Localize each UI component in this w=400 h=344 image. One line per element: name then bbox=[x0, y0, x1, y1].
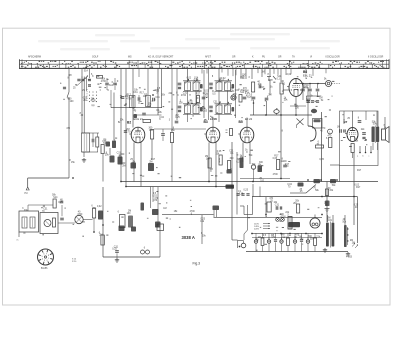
capacitor C14c bbox=[124, 131, 127, 133]
choke L7 bbox=[288, 217, 292, 230]
mains plug bbox=[238, 241, 246, 249]
svg-text:R17: R17 bbox=[357, 170, 362, 172]
capacitor C19 bbox=[252, 97, 256, 104]
wire anode frame bbox=[290, 96, 321, 106]
svg-text:2M: 2M bbox=[293, 203, 296, 205]
wire osc drop bbox=[139, 69, 162, 115]
resistor R7 bbox=[170, 133, 173, 143]
svg-text:KG VL GOLF VERKORT: KG VL GOLF VERKORT bbox=[148, 57, 174, 59]
wire af drops bbox=[253, 184, 260, 197]
capacitor C24 bbox=[316, 84, 320, 98]
svg-text:B2: B2 bbox=[127, 121, 131, 125]
resistor R3 bbox=[113, 78, 117, 90]
capacitor C30 bbox=[340, 129, 346, 133]
ground G1 bbox=[82, 158, 86, 162]
capacitor C5 bbox=[105, 78, 109, 90]
svg-text:C31: C31 bbox=[275, 204, 280, 206]
capacitor C44 psu bbox=[280, 233, 283, 251]
svg-text:R17: R17 bbox=[196, 94, 201, 96]
svg-text:2M: 2M bbox=[83, 100, 86, 102]
capacitor C6 bbox=[121, 97, 125, 99]
svg-text:0,25: 0,25 bbox=[244, 190, 249, 192]
coil L5 bbox=[146, 96, 151, 107]
dial lamp LA2 bbox=[281, 218, 285, 222]
svg-text:EF 22: EF 22 bbox=[245, 117, 253, 121]
label Fig.3 bbox=[193, 262, 201, 266]
capacitor C12 bbox=[153, 98, 155, 102]
terminal PU bbox=[25, 187, 30, 195]
svg-text:c: c bbox=[369, 156, 370, 158]
coil L3 bbox=[148, 163, 154, 171]
svg-text:1M: 1M bbox=[163, 208, 166, 210]
terminal 1 circled bbox=[328, 129, 333, 134]
fuse F1 bbox=[267, 202, 271, 212]
capacitor C13b bbox=[134, 114, 138, 118]
capacitor C21 electrolytic bbox=[274, 110, 279, 115]
label B6 bbox=[344, 120, 348, 124]
capacitor C15 bbox=[202, 97, 206, 99]
wire osc link bbox=[103, 93, 114, 182]
label B4 bbox=[239, 117, 253, 124]
svg-text:S14: S14 bbox=[282, 237, 287, 239]
svg-text:4700: 4700 bbox=[126, 99, 132, 101]
wire B4 leads bbox=[243, 118, 250, 165]
coil L4 bbox=[130, 96, 136, 108]
resistor R8 bbox=[197, 96, 200, 103]
capacitor C8 bbox=[106, 142, 111, 147]
wire mains link bbox=[232, 239, 238, 241]
svg-text:2M: 2M bbox=[99, 235, 102, 237]
ground G2 bbox=[323, 248, 327, 252]
label ra bbox=[305, 77, 308, 80]
svg-text:II OSCILLOGR: II OSCILLOGR bbox=[368, 57, 384, 59]
wire tone bus low bbox=[281, 181, 378, 183]
svg-text:B5: B5 bbox=[239, 120, 243, 124]
tube B5 EBL21 bbox=[287, 79, 303, 97]
coil L1 bbox=[82, 133, 90, 157]
label B5 bbox=[303, 70, 312, 78]
trimmer capacitor C2 bbox=[77, 69, 89, 86]
loudspeaker LS bbox=[382, 127, 390, 143]
wire diag bbox=[290, 185, 316, 194]
svg-text:220V: 220V bbox=[254, 229, 260, 231]
padder capacitor C7 bbox=[118, 157, 123, 165]
svg-text:0,02: 0,02 bbox=[97, 206, 102, 208]
svg-text:GOLF: GOLF bbox=[92, 57, 99, 59]
resistor R1 bbox=[96, 133, 99, 152]
svg-text:0,25: 0,25 bbox=[112, 249, 117, 251]
dial lamp LA1 bbox=[276, 218, 280, 222]
svg-text:C31: C31 bbox=[235, 90, 240, 92]
wire mains lead bbox=[244, 205, 248, 240]
capacitor C28 bbox=[358, 121, 362, 123]
capacitor C S6c bbox=[178, 106, 182, 112]
switch box S3 bbox=[157, 224, 164, 231]
wire HT vertical right bbox=[357, 197, 359, 215]
wire tone bus bbox=[298, 83, 325, 85]
wire bus left bbox=[120, 69, 122, 182]
tone knob K3 bbox=[298, 183, 304, 187]
wire speaker feed bbox=[384, 117, 386, 128]
capacitor C35 bbox=[276, 206, 282, 210]
bandswitch bar S1 contact labels bbox=[21, 61, 384, 68]
svg-text:PU: PU bbox=[262, 57, 266, 59]
capacitor C53 bbox=[128, 216, 133, 228]
capacitor C22 bbox=[301, 84, 305, 101]
capacitor C1 bbox=[60, 82, 66, 89]
resistor R10 bbox=[219, 155, 222, 165]
IF transformer S7 secondary bbox=[215, 102, 235, 115]
svg-text:I OSCILLOGR: I OSCILLOGR bbox=[325, 57, 340, 59]
terminal strip bbox=[17, 232, 20, 242]
jack plug bbox=[313, 119, 323, 129]
IF transformer S6 secondary bbox=[183, 102, 203, 115]
svg-text:4700: 4700 bbox=[273, 174, 279, 176]
capacitor C33 bbox=[283, 165, 287, 167]
resistor R31 psu bbox=[261, 233, 264, 251]
svg-text:AFSCHERM: AFSCHERM bbox=[28, 56, 41, 59]
svg-text:C31: C31 bbox=[328, 220, 333, 222]
resistor R28 bbox=[141, 203, 145, 211]
wire mixer grid bbox=[111, 90, 162, 115]
capacitor C13 bbox=[142, 113, 146, 115]
wire speaker link bbox=[373, 111, 378, 150]
svg-text:R17: R17 bbox=[356, 187, 361, 189]
capacitor C S7c bbox=[209, 106, 213, 112]
svg-text:4700: 4700 bbox=[91, 101, 97, 103]
IF transformer S7 primary bbox=[215, 79, 235, 92]
wire AF bus B bbox=[126, 186, 232, 188]
resistor R35 psu bbox=[287, 233, 290, 251]
psu bus top bbox=[252, 233, 322, 237]
ghost bleedthrough text bbox=[38, 33, 340, 50]
svg-text:C31: C31 bbox=[155, 97, 160, 99]
coil L2 bbox=[131, 163, 137, 169]
node J1 bbox=[120, 97, 127, 105]
svg-text:0,02: 0,02 bbox=[204, 91, 209, 93]
tube B6 output bbox=[345, 128, 358, 142]
value labels scatter bbox=[22, 68, 387, 251]
svg-text:MG: MG bbox=[128, 57, 132, 59]
motor M1 bbox=[75, 215, 83, 223]
wire S7 links bbox=[209, 69, 236, 122]
wire S6 links bbox=[177, 69, 204, 122]
capacitor C17 bbox=[243, 97, 247, 99]
wire mid verticals bbox=[232, 142, 237, 240]
tube socket diagram bbox=[38, 249, 54, 265]
resistor R19 bbox=[316, 145, 324, 148]
capacitor C55 bbox=[325, 201, 330, 207]
capacitor C14b bbox=[161, 129, 165, 141]
svg-text:AFST: AFST bbox=[205, 56, 211, 59]
label 3038 A bbox=[182, 235, 195, 240]
wire aerial bus 2 bbox=[84, 77, 86, 134]
mains transformer T1 primary bbox=[326, 222, 334, 248]
svg-text:0,25: 0,25 bbox=[175, 117, 180, 119]
capacitor C51 bbox=[60, 218, 64, 220]
svg-text:0,25: 0,25 bbox=[239, 194, 244, 196]
capacitor C25 bbox=[307, 101, 310, 103]
capacitor C18 bbox=[259, 85, 261, 89]
capacitor C43 psu bbox=[274, 233, 277, 251]
wire antenna drop bbox=[67, 69, 69, 178]
wire AF bus C bbox=[240, 178, 290, 180]
potentiometer P1 bbox=[326, 81, 341, 87]
terminal pair 88 bbox=[141, 250, 150, 254]
wire B2 anode bbox=[140, 143, 142, 187]
svg-text:2M: 2M bbox=[261, 71, 264, 73]
capacitor C40 psu bbox=[254, 233, 257, 251]
capacitor C26 bbox=[311, 101, 319, 103]
wire B3 leads bbox=[209, 118, 216, 187]
wire gram drops bbox=[151, 187, 159, 228]
capacitor C48 psu bbox=[306, 233, 309, 251]
voltage taps bbox=[254, 223, 270, 231]
wire crossing X bbox=[297, 119, 304, 129]
capacitor C52 bbox=[98, 211, 103, 220]
svg-text:2M: 2M bbox=[149, 161, 152, 163]
svg-text:0,25: 0,25 bbox=[236, 162, 241, 164]
svg-text:C31: C31 bbox=[213, 102, 218, 104]
resistor R24 bbox=[93, 208, 96, 218]
capacitor C14 bbox=[175, 121, 179, 123]
capacitor C11 bbox=[138, 95, 140, 104]
svg-text:2M: 2M bbox=[122, 166, 125, 168]
svg-text:0,05: 0,05 bbox=[203, 111, 208, 113]
svg-text:GR: GR bbox=[232, 57, 236, 59]
parts cluster A bbox=[119, 226, 137, 232]
heater taps arrows bbox=[352, 243, 358, 248]
ground G5 bbox=[325, 209, 330, 212]
svg-text:B1-B6: B1-B6 bbox=[41, 268, 48, 270]
capacitor C32 bbox=[258, 166, 263, 173]
resistor R23 bbox=[53, 199, 56, 208]
capacitor C10 bbox=[110, 156, 115, 163]
resistor R5 bbox=[151, 130, 154, 140]
speaker terminals bbox=[357, 146, 372, 158]
svg-text:B6: B6 bbox=[303, 70, 307, 74]
volume potentiometer P2 bbox=[226, 185, 235, 189]
svg-text:Fig.3: Fig.3 bbox=[193, 262, 201, 266]
resistor R26 bbox=[101, 235, 104, 245]
resistor R17 bbox=[351, 144, 354, 153]
capacitor C23 bbox=[308, 84, 312, 101]
svg-text:2M: 2M bbox=[352, 242, 355, 244]
wire bar stubs bbox=[202, 69, 326, 76]
resistor R25 bbox=[120, 215, 126, 228]
pickup unit box bbox=[19, 211, 39, 232]
IF transformer S6 primary bbox=[183, 79, 203, 92]
svg-text:4 803: 4 803 bbox=[346, 256, 353, 259]
wire pickup bus bbox=[28, 178, 69, 187]
resistor R6 bbox=[143, 120, 151, 123]
resistor R11 bbox=[208, 158, 211, 168]
svg-text:0,05: 0,05 bbox=[319, 159, 324, 161]
svg-text:(a): (a) bbox=[92, 104, 95, 107]
svg-text:S14: S14 bbox=[109, 85, 114, 87]
label socket bbox=[41, 268, 48, 270]
resistor R20 bbox=[277, 160, 280, 170]
rectifier tube B7 bbox=[310, 215, 320, 229]
wire output stage bbox=[344, 111, 366, 158]
tuning gang dashed link bbox=[87, 89, 97, 102]
capacitor C31 tubular bbox=[251, 165, 255, 182]
resistor R2 bbox=[97, 76, 103, 79]
output stage shield box bbox=[330, 111, 378, 182]
switch cluster S4 bbox=[152, 209, 161, 228]
capacitor C50 bbox=[60, 201, 64, 203]
bandswitch bar S1 rails bbox=[20, 59, 390, 69]
capacitor C20 bbox=[265, 98, 269, 100]
wire bus left 2 bbox=[125, 69, 127, 187]
svg-text:4700: 4700 bbox=[101, 81, 107, 83]
wire psu mid bbox=[162, 197, 322, 244]
resistor R18 bbox=[329, 138, 332, 148]
svg-text:PU: PU bbox=[25, 193, 29, 195]
svg-text:4700: 4700 bbox=[77, 214, 83, 216]
resistor R21 bbox=[297, 204, 300, 213]
resistor R13 bbox=[240, 158, 244, 169]
svg-text:0,05: 0,05 bbox=[273, 158, 278, 160]
svg-text:0,05: 0,05 bbox=[194, 80, 199, 82]
capacitor C S7a bbox=[209, 83, 213, 89]
wire HT bus bbox=[252, 196, 358, 198]
switch S2 contacts bbox=[267, 76, 276, 81]
wire B5 leads bbox=[284, 87, 309, 115]
wire right mid bbox=[308, 112, 327, 222]
wire aerial bus bbox=[81, 77, 83, 134]
tube B2 bbox=[129, 127, 145, 143]
resistor R39 psu bbox=[314, 233, 317, 251]
wire coil top bbox=[82, 133, 100, 152]
ballast resistor R22 bbox=[289, 222, 301, 227]
ground G4 bbox=[115, 258, 119, 262]
svg-text:4700: 4700 bbox=[281, 216, 287, 218]
svg-text:GR: GR bbox=[278, 57, 282, 59]
wire IF drop a bbox=[241, 69, 252, 79]
resistor R9 bbox=[239, 95, 242, 103]
note text pair bbox=[72, 259, 77, 264]
switch unit box bbox=[40, 213, 58, 234]
bandswitch section labels bbox=[28, 56, 384, 59]
tube B3 bbox=[204, 127, 220, 143]
svg-text:C31: C31 bbox=[230, 91, 235, 93]
svg-text:3038 A: 3038 A bbox=[182, 235, 195, 240]
svg-text:2M: 2M bbox=[268, 94, 271, 96]
wire grid drop B2 bbox=[132, 69, 134, 128]
svg-text:1M: 1M bbox=[337, 127, 340, 129]
capacitor C56 electrolytic bbox=[311, 109, 317, 113]
resistor R4 bbox=[101, 145, 104, 154]
bandswitch bar S1 contacts bbox=[31, 60, 383, 69]
resistor R14 bbox=[252, 82, 255, 92]
svg-text:VI: VI bbox=[310, 57, 313, 59]
label (a) bbox=[92, 104, 95, 107]
wire transformer tops bbox=[328, 153, 358, 244]
resistor R27 bbox=[325, 189, 328, 196]
glyph specks bbox=[23, 75, 378, 250]
tone knob K2 bbox=[330, 179, 336, 183]
label B2 bbox=[127, 117, 143, 125]
capacitor row C34 bbox=[236, 194, 249, 196]
wire lower links bbox=[103, 187, 160, 257]
output transformer T2 bbox=[372, 126, 380, 144]
capacitor C29 bbox=[362, 133, 366, 139]
capacitor C46 psu bbox=[293, 233, 296, 251]
svg-text:S14: S14 bbox=[240, 92, 245, 94]
svg-text:B3: B3 bbox=[204, 120, 208, 124]
wire AF bottom bus bbox=[250, 114, 312, 116]
resistor R15 bbox=[280, 83, 283, 94]
svg-text:0,02: 0,02 bbox=[287, 74, 292, 76]
wire crossing loop bbox=[308, 126, 316, 141]
svg-text:TA: TA bbox=[292, 56, 295, 59]
svg-text:0,25: 0,25 bbox=[58, 202, 63, 204]
wire AF bus A bbox=[121, 181, 378, 183]
psu bus bottom bbox=[246, 251, 348, 253]
capacitor C42 psu bbox=[267, 233, 270, 251]
svg-text:m: m bbox=[17, 240, 19, 242]
wire demod bbox=[254, 69, 282, 179]
wire mains step bbox=[240, 197, 253, 215]
capacitor C54 bbox=[115, 251, 119, 258]
svg-text:S14: S14 bbox=[53, 197, 58, 199]
svg-text:S14: S14 bbox=[84, 70, 89, 72]
capacitor C9 bbox=[112, 141, 116, 149]
wire seg m1 bbox=[152, 69, 172, 182]
capacitor C S6a bbox=[178, 83, 182, 89]
resistor R12 bbox=[227, 161, 232, 174]
mains transformer T1 secondary bbox=[344, 225, 348, 247]
svg-text:C31: C31 bbox=[133, 92, 138, 94]
capacitor C4 bbox=[92, 133, 94, 147]
wire B2 cathode bbox=[133, 143, 135, 182]
wire grid bus bbox=[154, 128, 206, 130]
ground G3 bbox=[346, 252, 350, 256]
tone knob K1 bbox=[314, 179, 321, 183]
page border frame bbox=[3, 28, 391, 305]
capacitor C16 tubular bbox=[231, 95, 236, 100]
capacitor C47 psu bbox=[300, 233, 303, 251]
label 4 803 bbox=[346, 256, 353, 259]
label B3 bbox=[204, 117, 218, 124]
mains switch on pot bbox=[213, 206, 220, 218]
capacitor C3 bbox=[88, 69, 91, 86]
resistor R29 bbox=[226, 129, 233, 136]
svg-text:R17: R17 bbox=[127, 94, 132, 96]
svg-text:4700: 4700 bbox=[181, 95, 187, 97]
wire gram links bbox=[28, 205, 94, 232]
tube B4 detector bbox=[238, 127, 254, 143]
